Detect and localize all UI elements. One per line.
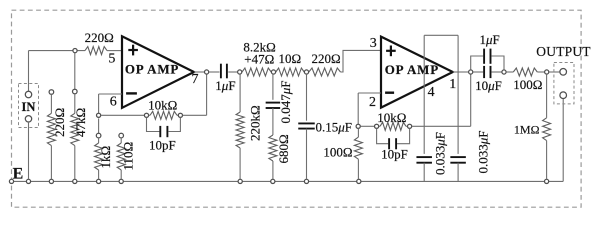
svg-text:100Ω: 100Ω	[323, 145, 352, 160]
svg-text:220Ω: 220Ω	[52, 108, 67, 137]
svg-text:OUTPUT: OUTPUT	[536, 44, 591, 59]
svg-text:10kΩ: 10kΩ	[377, 110, 406, 125]
svg-text:0.15μF: 0.15μF	[316, 120, 353, 135]
svg-text:IN: IN	[22, 100, 36, 114]
svg-text:5: 5	[108, 52, 115, 67]
svg-text:+47Ω: +47Ω	[244, 51, 274, 66]
svg-text:0.033μF: 0.033μF	[433, 132, 448, 175]
svg-text:1: 1	[449, 77, 456, 92]
svg-text:7: 7	[192, 72, 199, 87]
svg-text:10pF: 10pF	[381, 147, 408, 162]
svg-text:220Ω: 220Ω	[85, 30, 114, 45]
svg-text:OP AMP: OP AMP	[385, 62, 439, 77]
svg-text:6: 6	[110, 95, 117, 110]
svg-text:220kΩ: 220kΩ	[248, 105, 263, 141]
svg-text:10kΩ: 10kΩ	[148, 98, 177, 113]
svg-text:0.033μF: 0.033μF	[476, 130, 491, 173]
svg-text:10pF: 10pF	[149, 137, 176, 152]
svg-text:680Ω: 680Ω	[276, 134, 291, 163]
svg-text:220Ω: 220Ω	[312, 51, 341, 66]
svg-text:100Ω: 100Ω	[513, 77, 542, 92]
svg-text:10Ω: 10Ω	[279, 51, 302, 66]
svg-text:10μF: 10μF	[475, 78, 502, 93]
svg-text:E: E	[13, 165, 24, 182]
svg-text:1μF: 1μF	[215, 78, 235, 93]
svg-text:3: 3	[370, 36, 377, 51]
svg-text:1μF: 1μF	[480, 32, 500, 47]
svg-text:4: 4	[428, 85, 435, 100]
svg-text:110Ω: 110Ω	[121, 142, 136, 171]
svg-text:OP AMP: OP AMP	[125, 62, 179, 77]
svg-text:1kΩ: 1kΩ	[98, 146, 113, 169]
svg-text:2: 2	[369, 95, 376, 110]
svg-text:1MΩ: 1MΩ	[514, 122, 540, 136]
svg-text:47kΩ: 47kΩ	[73, 108, 88, 137]
svg-text:0.047μF: 0.047μF	[278, 80, 293, 123]
